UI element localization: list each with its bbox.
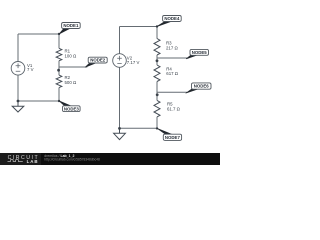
svg-text:7.17 V: 7.17 V [127, 60, 140, 65]
svg-text:LAB: LAB [27, 159, 39, 164]
svg-text:NODE2: NODE2 [90, 58, 106, 63]
svg-text:NODE1: NODE1 [63, 23, 79, 28]
svg-text:100 Ω: 100 Ω [65, 53, 77, 58]
svg-text:7 V: 7 V [27, 67, 34, 72]
svg-text:NODE6: NODE6 [194, 84, 210, 89]
svg-text:500 Ω: 500 Ω [65, 80, 77, 85]
svg-text:http://circuitlab.com/c/585783: http://circuitlab.com/c/58578348dbc48 [44, 158, 100, 162]
svg-text:NODE5: NODE5 [192, 50, 208, 55]
svg-text:NODE3: NODE3 [64, 106, 80, 111]
svg-text:61.7 Ω: 61.7 Ω [167, 106, 181, 111]
svg-text:217 Ω: 217 Ω [166, 45, 178, 50]
svg-text:NODE7: NODE7 [165, 135, 181, 140]
svg-text:617 Ω: 617 Ω [166, 71, 178, 76]
svg-text:NODE4: NODE4 [164, 16, 180, 21]
